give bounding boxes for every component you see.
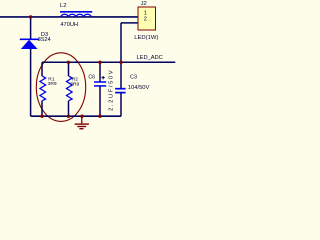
svg-text:1: 1 [144, 10, 147, 16]
svg-text:L2: L2 [60, 3, 67, 9]
svg-text:2.2UF/50V: 2.2UF/50V [109, 69, 115, 111]
svg-text:C3: C3 [130, 75, 137, 81]
svg-text:3R9: 3R9 [70, 82, 79, 88]
svg-text:J2: J2 [141, 1, 147, 7]
svg-text:LED_ADC: LED_ADC [137, 55, 163, 61]
svg-text:R2: R2 [72, 76, 79, 82]
svg-text:2: 2 [144, 17, 147, 23]
svg-text:3R9: 3R9 [48, 81, 57, 87]
svg-text:LED(1W): LED(1W) [134, 35, 158, 41]
svg-text:470UH: 470UH [60, 22, 78, 28]
svg-text:104/50V: 104/50V [128, 85, 150, 91]
svg-text:C6: C6 [88, 74, 95, 80]
svg-text:3S24: 3S24 [38, 37, 51, 43]
